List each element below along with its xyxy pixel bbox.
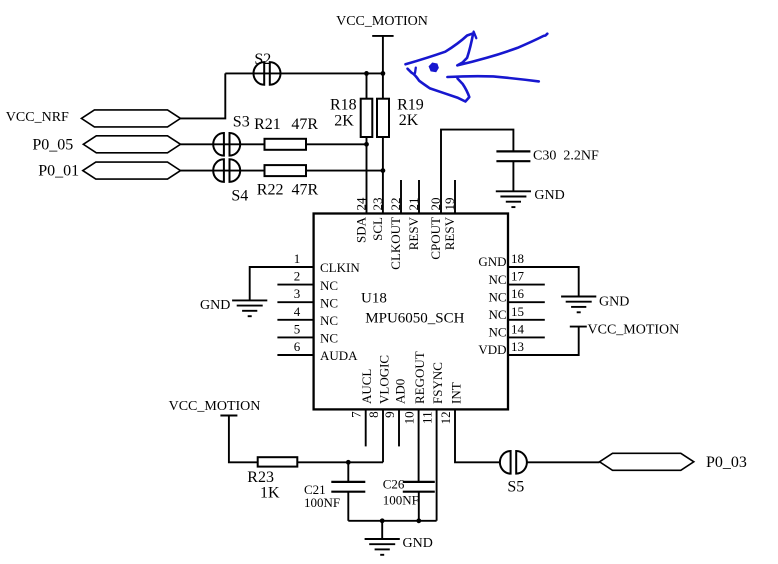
svg-text:SCL: SCL [370, 217, 385, 241]
junction rail / ground drop [380, 518, 385, 523]
wire R22 to SCL net [306, 170, 383, 172]
svg-text:GND: GND [478, 254, 506, 269]
svg-text:VCC_MOTION: VCC_MOTION [588, 322, 680, 337]
ground (C30) [496, 190, 531, 192]
port P0_01 [83, 162, 181, 179]
svg-text:22: 22 [388, 198, 403, 211]
svg-text:5: 5 [294, 321, 301, 336]
IC U18 MPU6050_SCH body [314, 214, 508, 410]
svg-text:NC: NC [320, 278, 338, 293]
svg-text:S2: S2 [254, 51, 271, 68]
junction R19 bottom / SCL [381, 168, 386, 173]
bird sketch - eye [430, 63, 439, 71]
svg-text:P0_03: P0_03 [706, 454, 747, 471]
svg-text:12: 12 [438, 411, 453, 424]
pin 14 stub [508, 336, 545, 338]
svg-text:1K: 1K [260, 485, 280, 502]
wire pin 1 CLKIN to ground [250, 267, 314, 300]
svg-text:GND: GND [599, 295, 629, 310]
svg-text:CPOUT: CPOUT [428, 217, 443, 260]
svg-text:MPU6050_SCH: MPU6050_SCH [365, 311, 464, 327]
svg-text:1: 1 [294, 251, 301, 266]
wire VCC_MOTION vertical through R19 to pin 23 [382, 36, 384, 214]
wire VCC_MOTION to R23 [229, 416, 258, 463]
svg-text:VCC_MOTION: VCC_MOTION [169, 399, 261, 414]
svg-text:FSYNC: FSYNC [430, 362, 445, 404]
svg-text:R21: R21 [254, 116, 281, 133]
wire R23 to pin 8 [297, 461, 383, 463]
wire pin 8 VLOGIC down to R23 net [382, 409, 384, 462]
wire pin 11 FSYNC to ground rail [436, 409, 438, 520]
svg-text:RESV: RESV [442, 216, 457, 250]
svg-text:18: 18 [511, 251, 524, 266]
resistor R18 body [361, 99, 373, 137]
svg-text:NC: NC [320, 331, 338, 346]
wire C26 bottom lead [418, 492, 420, 521]
svg-text:17: 17 [511, 269, 525, 284]
svg-text:100NF: 100NF [383, 493, 419, 508]
capacitor C30 [496, 150, 530, 152]
svg-text:GND: GND [200, 298, 230, 313]
bird sketch - body outline [408, 69, 470, 102]
svg-text:20: 20 [428, 198, 443, 211]
ground (bottom) [365, 538, 400, 540]
svg-text:NC: NC [320, 295, 338, 310]
svg-text:RESV: RESV [406, 216, 421, 250]
svg-text:R23: R23 [247, 469, 274, 486]
svg-text:VLOGIC: VLOGIC [377, 355, 392, 404]
port VCC_NRF [81, 110, 180, 127]
jumper S4 [213, 159, 224, 182]
wire pin 12 INT to S5 [455, 409, 500, 462]
power symbol VCC_MOTION (top) [372, 35, 393, 37]
wire P0_05 to R21 [181, 143, 265, 145]
bird sketch - lower tail streamer [447, 76, 538, 81]
power symbol VCC_MOTION (bottom left) [220, 415, 237, 417]
svg-text:GND: GND [403, 536, 433, 551]
pin 7 stub [365, 409, 367, 446]
ground (right, pin 18) [561, 296, 596, 298]
svg-text:7: 7 [349, 411, 364, 418]
wire S2 row (VCC_NRF to VCC net) [225, 72, 383, 74]
wire rail to ground [381, 521, 383, 539]
svg-text:21: 21 [406, 198, 421, 211]
bird sketch - head, wing and upper tail streamer [406, 33, 548, 65]
svg-text:10: 10 [402, 411, 417, 424]
wire S5 to P0_03 [527, 461, 600, 463]
wire pin 10 REGOUT to C26 [418, 409, 420, 482]
svg-text:24: 24 [353, 197, 368, 211]
wire VCC_NRF to S2 [181, 73, 226, 118]
svg-text:11: 11 [420, 411, 435, 424]
svg-text:NC: NC [320, 313, 338, 328]
junction C21 top [346, 460, 351, 465]
svg-text:AUDA: AUDA [320, 348, 358, 363]
wire ground rail [348, 520, 436, 522]
svg-text:CLKIN: CLKIN [320, 260, 360, 275]
svg-text:REGOUT: REGOUT [412, 351, 427, 404]
wire C21 bottom lead [347, 492, 349, 521]
wire C30 to ground [512, 161, 514, 191]
svg-text:CLKOUT: CLKOUT [388, 217, 403, 270]
svg-text:15: 15 [511, 304, 524, 319]
svg-text:S3: S3 [233, 113, 250, 130]
port P0_05 [83, 136, 180, 153]
svg-text:2K: 2K [399, 112, 419, 129]
svg-text:47R: 47R [292, 182, 319, 199]
pin 4 stub [277, 319, 313, 321]
svg-text:GND: GND [534, 188, 564, 203]
svg-text:4: 4 [294, 304, 301, 319]
wire R21 to SDA net [306, 143, 367, 145]
wire P0_01 to R22 [181, 170, 265, 172]
pin 17 stub [508, 284, 545, 286]
svg-text:47R: 47R [291, 116, 318, 133]
wire SDA vertical (S2 row to pin 24) [366, 73, 368, 213]
bird sketch - wing tip overshoot [474, 32, 477, 39]
pin 16 stub [508, 301, 545, 303]
pin 15 stub [508, 319, 545, 321]
pin 21 stub [418, 180, 420, 214]
junction R18 bottom / SDA [364, 142, 369, 147]
svg-text:S5: S5 [507, 479, 524, 496]
jumper S5 [500, 451, 511, 474]
svg-text:AD0: AD0 [393, 379, 408, 404]
svg-text:NC: NC [488, 289, 506, 304]
wire pin 13 VDD to VCC_MOTION [508, 327, 579, 355]
jumper S2 [254, 62, 265, 85]
wire CPOUT pin 20 to C30 [441, 130, 513, 214]
pin 22 stub [400, 180, 402, 214]
junction at R18 top [364, 71, 369, 76]
svg-text:16: 16 [511, 286, 525, 301]
svg-text:U18: U18 [361, 291, 387, 307]
svg-text:8: 8 [366, 411, 381, 418]
svg-text:SDA: SDA [353, 216, 368, 243]
capacitor C21 [331, 481, 365, 483]
wire C21 top lead [347, 462, 349, 482]
wire pin 18 GND to ground [508, 267, 579, 296]
svg-text:C30 2.2NF: C30 2.2NF [533, 148, 599, 163]
svg-text:6: 6 [294, 339, 301, 354]
pin 2 stub [277, 284, 313, 286]
port P0_03 [600, 453, 694, 470]
pin 19 stub [454, 180, 456, 214]
svg-text:2: 2 [294, 269, 301, 284]
svg-text:VCC_MOTION: VCC_MOTION [336, 14, 428, 29]
resistor R21 [265, 139, 307, 150]
bird sketch - beak detail [414, 68, 417, 74]
svg-text:C26: C26 [383, 477, 405, 492]
pin 6 stub [277, 354, 313, 356]
pin 5 stub [277, 336, 313, 338]
svg-text:P0_05: P0_05 [32, 136, 73, 153]
svg-text:VDD: VDD [478, 342, 506, 357]
svg-text:NC: NC [488, 325, 506, 340]
svg-text:100NF: 100NF [304, 495, 340, 510]
junction S2 wire / VCC vertical [381, 71, 386, 76]
svg-text:23: 23 [370, 198, 385, 211]
junction rail / C26 [416, 518, 421, 523]
svg-text:R19: R19 [397, 96, 424, 113]
svg-text:19: 19 [442, 198, 457, 211]
resistor R19 body [377, 99, 389, 137]
capacitor C26 [403, 481, 435, 483]
ground (left, pin 1) [232, 299, 267, 301]
power symbol VCC_MOTION (right) [570, 326, 587, 328]
svg-text:13: 13 [511, 339, 524, 354]
svg-text:INT: INT [449, 382, 464, 404]
jumper S3 [213, 133, 224, 156]
resistor R22 body [265, 165, 307, 176]
svg-text:VCC_NRF: VCC_NRF [6, 110, 69, 125]
svg-text:14: 14 [511, 321, 525, 336]
resistor R23 body [258, 457, 298, 466]
pin 3 stub [277, 301, 313, 303]
svg-text:NC: NC [488, 307, 506, 322]
svg-text:2K: 2K [334, 113, 354, 130]
svg-text:AUCL: AUCL [359, 369, 374, 404]
pin 9 stub [398, 409, 400, 446]
svg-text:R18: R18 [330, 97, 357, 114]
svg-text:P0_01: P0_01 [38, 162, 79, 179]
svg-text:S4: S4 [231, 188, 248, 205]
svg-text:9: 9 [382, 411, 397, 418]
svg-text:3: 3 [294, 286, 301, 301]
svg-text:NC: NC [488, 272, 506, 287]
svg-text:R22: R22 [257, 182, 284, 199]
